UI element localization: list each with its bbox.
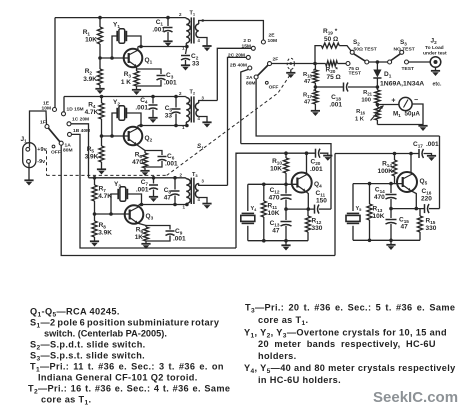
potentiometer R16 bbox=[355, 105, 384, 125]
svg-text:2B 40M: 2B 40M bbox=[230, 63, 247, 69]
crystal Y4 bbox=[241, 184, 257, 240]
node T2 primary bottom bbox=[174, 124, 189, 128]
node T3 primary bottom bbox=[173, 203, 189, 207]
svg-text:3.9K: 3.9K bbox=[83, 76, 97, 83]
switch S3 contact TEST bbox=[402, 60, 415, 72]
switch S1b rotor arm bbox=[258, 65, 269, 76]
resistor R9 bbox=[135, 223, 149, 243]
wire osc5 output riser bbox=[439, 136, 441, 209]
svg-text:under test: under test bbox=[423, 51, 447, 57]
watermark SeekIC.com bbox=[373, 389, 458, 406]
svg-text:470: 470 bbox=[374, 194, 385, 201]
wire Q1 base bbox=[100, 57, 129, 59]
wire J1 plus to 1F bbox=[30, 111, 47, 147]
svg-text:etc.: etc. bbox=[433, 82, 442, 88]
wire bus to osc5 rail bbox=[334, 154, 336, 256]
resistor R18 bbox=[303, 64, 318, 88]
ground C20 bbox=[323, 156, 332, 161]
switch S1b contact 2B bbox=[230, 63, 252, 71]
svg-text:47: 47 bbox=[304, 79, 310, 85]
svg-text:SeekIC.com: SeekIC.com bbox=[373, 389, 458, 406]
transistor Q4 bbox=[292, 173, 322, 193]
resistor R1 bbox=[83, 18, 103, 58]
switch S2 contact 50ohm bbox=[350, 39, 377, 54]
switch S3 common and arm bbox=[388, 39, 415, 64]
svg-text:Y4: Y4 bbox=[251, 206, 258, 212]
ground J2 bbox=[431, 67, 440, 76]
wire rail to switch contact 1D bbox=[63, 97, 65, 113]
capacitor C16 bbox=[421, 188, 440, 213]
wire S3 to J2 bbox=[409, 61, 430, 63]
capacitor C6 bbox=[145, 151, 178, 168]
svg-text:75 Ω: 75 Ω bbox=[327, 74, 341, 81]
svg-text:2A: 2A bbox=[246, 75, 253, 81]
svg-text:1 K: 1 K bbox=[121, 79, 131, 86]
svg-text:1D 15M: 1D 15M bbox=[67, 107, 84, 113]
switch S1a contact 1E bbox=[42, 101, 57, 112]
svg-text:80M: 80M bbox=[246, 81, 256, 87]
svg-text:Y5: Y5 bbox=[356, 206, 363, 212]
switch S1b contact 2C bbox=[228, 52, 250, 59]
node T1 primary bottom bbox=[185, 45, 189, 49]
capacitor C13 bbox=[270, 209, 292, 241]
svg-text:.001: .001 bbox=[135, 105, 148, 112]
svg-text:1K: 1K bbox=[135, 234, 144, 241]
phantom jack bbox=[287, 58, 294, 72]
linkage S1 dashed diagonal bbox=[167, 75, 290, 175]
wire Q2 collector bbox=[137, 126, 139, 129]
svg-text:100: 100 bbox=[361, 98, 371, 104]
svg-text:1 K: 1 K bbox=[355, 117, 365, 123]
wire osc5 ground rail bbox=[353, 239, 420, 241]
capacitor C15 bbox=[386, 209, 410, 241]
ground C7 bbox=[149, 197, 158, 202]
switch S1b contact 2A bbox=[246, 75, 258, 87]
wire osc4 V+ rail bbox=[236, 152, 316, 154]
node osc4 rail junctions bbox=[284, 151, 308, 155]
wire osc5 emitter row bbox=[391, 208, 425, 210]
svg-text:470: 470 bbox=[269, 195, 280, 202]
capacitor C17 bbox=[413, 141, 439, 158]
svg-text:15M: 15M bbox=[241, 43, 251, 49]
switch S1a contact 1C bbox=[67, 117, 89, 126]
svg-text:Indiana General CF-101 Q2 toro: Indiana General CF-101 Q2 toroid. bbox=[38, 373, 198, 383]
wire collector line to T3 bbox=[139, 204, 187, 206]
transformer T2 bbox=[179, 90, 217, 131]
svg-text:R16: R16 bbox=[356, 109, 366, 115]
wire contact 1B to bus bbox=[72, 134, 237, 248]
wire T2 secondary to contact 2D bbox=[217, 48, 251, 100]
meter M1 bbox=[377, 97, 420, 118]
node D1 top bbox=[376, 60, 380, 64]
wire osc5 base line bbox=[353, 183, 403, 185]
ground R17 bbox=[311, 111, 320, 116]
switch S1a contact 1B bbox=[68, 128, 91, 136]
wire 2F to detector node bbox=[272, 63, 316, 65]
svg-text:10K: 10K bbox=[270, 166, 282, 173]
wire R16 bottom to ground bbox=[377, 124, 423, 126]
crystal Y3 bbox=[111, 181, 142, 214]
connector J1 battery bbox=[21, 136, 48, 168]
svg-text:TEST: TEST bbox=[402, 66, 415, 72]
resistor R10 bbox=[270, 153, 289, 184]
linkage S1 dashed bbox=[47, 174, 169, 176]
switch S1a contact 1A bbox=[59, 141, 72, 153]
svg-text:47: 47 bbox=[164, 195, 172, 202]
svg-text:1N69A,1N34A: 1N69A,1N34A bbox=[380, 81, 424, 88]
wire osc1 V+ rail bbox=[55, 17, 186, 19]
node osc5 emitter junction bbox=[389, 207, 418, 211]
wire bus to osc4 rail bbox=[236, 153, 238, 248]
svg-text:3.9K: 3.9K bbox=[85, 154, 99, 161]
switch S1a contact 1D bbox=[62, 107, 84, 116]
resistor R21 bbox=[361, 87, 380, 105]
capacitor C9 bbox=[146, 226, 186, 243]
node osc4 emitter junction bbox=[284, 207, 310, 211]
node osc5 ground junctions bbox=[368, 239, 393, 243]
svg-text:100K: 100K bbox=[377, 168, 393, 175]
wire osc4 emitter row bbox=[286, 208, 315, 210]
wire osc4 output line bbox=[241, 144, 331, 210]
ground R8 bbox=[90, 241, 99, 246]
svg-text:.001: .001 bbox=[152, 27, 165, 34]
wire osc4 ground rail bbox=[248, 240, 308, 242]
resistor R13 bbox=[367, 184, 385, 241]
node Q1 base node bbox=[98, 56, 114, 60]
ground C17 bbox=[427, 156, 436, 161]
wire contact 1A to bus bbox=[61, 145, 335, 255]
svg-text:T2: T2 bbox=[190, 90, 196, 96]
ground C4 bbox=[148, 118, 157, 123]
svg-text:2E: 2E bbox=[269, 33, 276, 39]
node D1 cathode / R21 bbox=[376, 85, 380, 89]
resistor R2 bbox=[83, 58, 102, 88]
svg-text:.001: .001 bbox=[173, 236, 186, 243]
ground T2 secondary bbox=[202, 122, 211, 127]
ground osc5 bbox=[386, 240, 395, 250]
capacitor C20 bbox=[310, 149, 328, 173]
svg-text:R17: R17 bbox=[303, 93, 313, 99]
switch S2 contact 75ohm bbox=[346, 62, 361, 77]
svg-text:50 Ω: 50 Ω bbox=[324, 36, 338, 43]
node osc5 base junctions bbox=[368, 182, 393, 186]
node collector/crystal junction osc3 bbox=[140, 203, 144, 207]
switch S1b contact 2E bbox=[261, 33, 277, 45]
svg-text:T1: T1 bbox=[190, 11, 196, 17]
svg-text:50Ω TEST: 50Ω TEST bbox=[354, 46, 377, 52]
svg-text:switch. (Centerlab PA-2005).: switch. (Centerlab PA-2005). bbox=[44, 329, 167, 339]
svg-text:4.7K: 4.7K bbox=[98, 193, 112, 200]
svg-text:−: − bbox=[414, 97, 418, 104]
svg-text:2C 20M: 2C 20M bbox=[228, 52, 245, 58]
svg-text:.001: .001 bbox=[426, 141, 439, 148]
crystal Y5 bbox=[346, 184, 362, 241]
resistor R20 bbox=[315, 61, 346, 81]
capacitor C2 bbox=[181, 47, 200, 68]
ground R3 bbox=[132, 90, 141, 95]
svg-text:1C 20M: 1C 20M bbox=[72, 117, 89, 123]
parts list left column bbox=[28, 307, 230, 407]
wire S2 common to D1 node bbox=[369, 61, 388, 63]
resistor R3 bbox=[121, 67, 139, 90]
wire osc4 base line bbox=[248, 183, 298, 185]
resistor R17 bbox=[303, 87, 318, 110]
ground R5 bbox=[97, 169, 106, 174]
node detector input bbox=[313, 62, 317, 66]
wire T1 secondary to contact 2E bbox=[201, 21, 263, 41]
parts list right column bbox=[244, 303, 456, 386]
node R21/R16/meter bbox=[376, 103, 380, 107]
svg-text:.001: .001 bbox=[136, 187, 149, 194]
node R18/R17/C18 bbox=[314, 85, 318, 89]
svg-text:TEST: TEST bbox=[349, 70, 362, 76]
node osc4 base junctions bbox=[262, 183, 288, 187]
linkage S1 dashed vertical bbox=[46, 151, 48, 176]
wire contact 2A to osc5 output line bbox=[256, 79, 439, 136]
svg-text:R21: R21 bbox=[363, 90, 373, 96]
node collector/crystal junction osc2 bbox=[139, 124, 143, 128]
svg-text:10K: 10K bbox=[373, 213, 385, 220]
capacitor C14 bbox=[374, 184, 397, 209]
svg-text:10M: 10M bbox=[268, 38, 278, 44]
capacitor C18 bbox=[315, 83, 377, 109]
wire Q4 collector bbox=[306, 153, 308, 174]
wire T3 secondary to contact 2C bbox=[228, 57, 247, 185]
svg-text:330: 330 bbox=[426, 225, 437, 232]
svg-text:47: 47 bbox=[272, 228, 280, 235]
wire collector line to T1 bbox=[138, 46, 187, 48]
wire Q3 base bbox=[95, 213, 130, 215]
switch S1b contact 2D bbox=[241, 38, 255, 50]
wire Q5 emitter bbox=[411, 191, 417, 209]
resistor R6 bbox=[132, 145, 147, 170]
svg-text:.001: .001 bbox=[329, 102, 342, 109]
wire meter to ground bbox=[412, 104, 423, 125]
capacitor C7 bbox=[136, 178, 158, 196]
svg-text:80M: 80M bbox=[63, 148, 73, 154]
wire collector line to T2 bbox=[138, 125, 187, 127]
resistor R8 bbox=[92, 214, 112, 241]
switch S1b OFF position bbox=[265, 81, 278, 90]
node osc3 rail junctions bbox=[93, 176, 177, 180]
svg-text:47: 47 bbox=[304, 100, 310, 106]
resistor R14 bbox=[377, 154, 396, 184]
capacitor C1 bbox=[152, 18, 172, 41]
svg-text:-9v: -9v bbox=[37, 159, 46, 165]
svg-text:T3: T3 bbox=[192, 172, 198, 178]
wire rail to switch contact 1E bbox=[54, 18, 56, 108]
resistor R5 bbox=[85, 136, 105, 169]
switch S2 common and arm bbox=[354, 54, 369, 64]
svg-text:20 meter bands respectively: 20 meter bands respectively, HC-6U bbox=[258, 339, 436, 349]
transformer T1 bbox=[179, 11, 207, 51]
resistor R19 bbox=[321, 28, 339, 48]
ground meter return bbox=[418, 126, 427, 131]
capacitor C3 bbox=[137, 69, 178, 87]
capacitor C11 bbox=[315, 190, 332, 214]
wire node up to R19 bbox=[315, 46, 321, 64]
svg-text:R18: R18 bbox=[303, 72, 313, 78]
capacitor C5 bbox=[165, 97, 181, 126]
wire contact 2B to osc4 output line bbox=[241, 70, 248, 144]
svg-text:470: 470 bbox=[132, 159, 143, 166]
node osc2 rail junctions bbox=[100, 95, 178, 99]
crystal Y2 bbox=[112, 99, 141, 136]
connector J2 bbox=[423, 38, 447, 68]
svg-text:10K: 10K bbox=[85, 37, 97, 44]
switch S3 contact NO TEST bbox=[400, 50, 404, 54]
svg-text:50μA: 50μA bbox=[405, 111, 421, 118]
node osc5 rail junctions bbox=[393, 152, 413, 156]
svg-text:1F: 1F bbox=[40, 120, 46, 126]
wire osc3 V+ rail bbox=[89, 177, 186, 179]
crystal Y1 bbox=[112, 22, 141, 59]
svg-text:1B 40M: 1B 40M bbox=[73, 128, 90, 134]
wire Q4 emitter bbox=[305, 191, 308, 209]
transistor Q1 bbox=[124, 49, 153, 68]
wire Q5 collector bbox=[410, 154, 413, 175]
switch S1a contact 1F bbox=[40, 120, 49, 129]
svg-text:+: + bbox=[391, 98, 395, 105]
svg-text:.001: .001 bbox=[164, 80, 177, 87]
svg-text:OFF: OFF bbox=[269, 85, 279, 91]
wire J1 minus to ground bbox=[28, 163, 30, 179]
switch S1a OFF position bbox=[51, 145, 61, 155]
wire Q1 collector bbox=[137, 47, 139, 51]
svg-text:holders.: holders. bbox=[258, 351, 297, 361]
transistor Q3 bbox=[125, 205, 154, 224]
ground R2 bbox=[95, 89, 104, 94]
switch S1b contact 2F bbox=[268, 57, 279, 66]
wire Q3 collector bbox=[138, 205, 140, 208]
svg-text:2 D: 2 D bbox=[243, 38, 251, 44]
ground C2 bbox=[181, 65, 190, 70]
svg-text:.001: .001 bbox=[310, 166, 323, 173]
svg-text:33: 33 bbox=[165, 113, 173, 120]
svg-text:To Load: To Load bbox=[425, 45, 444, 51]
svg-text:10M: 10M bbox=[42, 106, 52, 112]
ground R9 bbox=[141, 244, 150, 249]
resistor R7 bbox=[92, 178, 112, 214]
svg-text:NO TEST: NO TEST bbox=[394, 46, 415, 52]
node Q3 base node bbox=[93, 212, 113, 216]
svg-text:4.7K: 4.7K bbox=[85, 109, 99, 116]
ground phantom jack bbox=[286, 73, 295, 78]
svg-text:47: 47 bbox=[401, 224, 409, 231]
svg-text:2F: 2F bbox=[273, 57, 279, 63]
svg-text:OFF: OFF bbox=[51, 150, 61, 156]
node osc4 ground junctions bbox=[262, 239, 288, 243]
svg-text:150: 150 bbox=[316, 198, 327, 205]
node Q2 base node bbox=[100, 134, 114, 138]
switch S1a rotor arm bbox=[48, 128, 60, 142]
ground osc4 bbox=[281, 241, 290, 251]
diode D1 bbox=[373, 62, 442, 88]
wire osc5 V+ rail bbox=[335, 153, 419, 155]
transistor Q5 bbox=[397, 172, 428, 192]
resistor R15 bbox=[417, 209, 436, 241]
svg-text:10K: 10K bbox=[268, 210, 280, 217]
node collector/crystal junction bbox=[139, 45, 143, 49]
svg-text:220: 220 bbox=[421, 196, 432, 203]
wire Q2 base bbox=[102, 135, 129, 137]
ground C1 bbox=[163, 41, 172, 46]
resistor R4 bbox=[85, 97, 105, 137]
transistor Q2 bbox=[124, 127, 153, 146]
svg-text:330: 330 bbox=[312, 225, 323, 232]
capacitor C8 bbox=[164, 178, 180, 205]
ground R6 bbox=[140, 171, 149, 176]
capacitor C12 bbox=[269, 184, 292, 209]
ground J1 bbox=[24, 180, 33, 185]
transformer T3 bbox=[179, 172, 227, 210]
wire osc2 V+ rail bbox=[64, 96, 186, 98]
ground T1 secondary bbox=[202, 46, 211, 51]
label S1 bbox=[197, 143, 204, 150]
node osc1 rail junctions bbox=[98, 16, 170, 20]
ground T3 secondary bbox=[202, 204, 211, 209]
svg-text:3.9K: 3.9K bbox=[98, 230, 112, 237]
svg-text:in HC-6U holders.: in HC-6U holders. bbox=[258, 375, 341, 385]
wire R19 to S2 contact bbox=[339, 46, 351, 51]
svg-text:.001: .001 bbox=[165, 161, 178, 168]
resistor R11 bbox=[261, 184, 280, 240]
svg-text:33: 33 bbox=[192, 61, 200, 68]
capacitor C4 bbox=[135, 97, 157, 118]
wire contact 1C to rail bbox=[71, 124, 89, 178]
resistor R12 bbox=[305, 209, 322, 241]
